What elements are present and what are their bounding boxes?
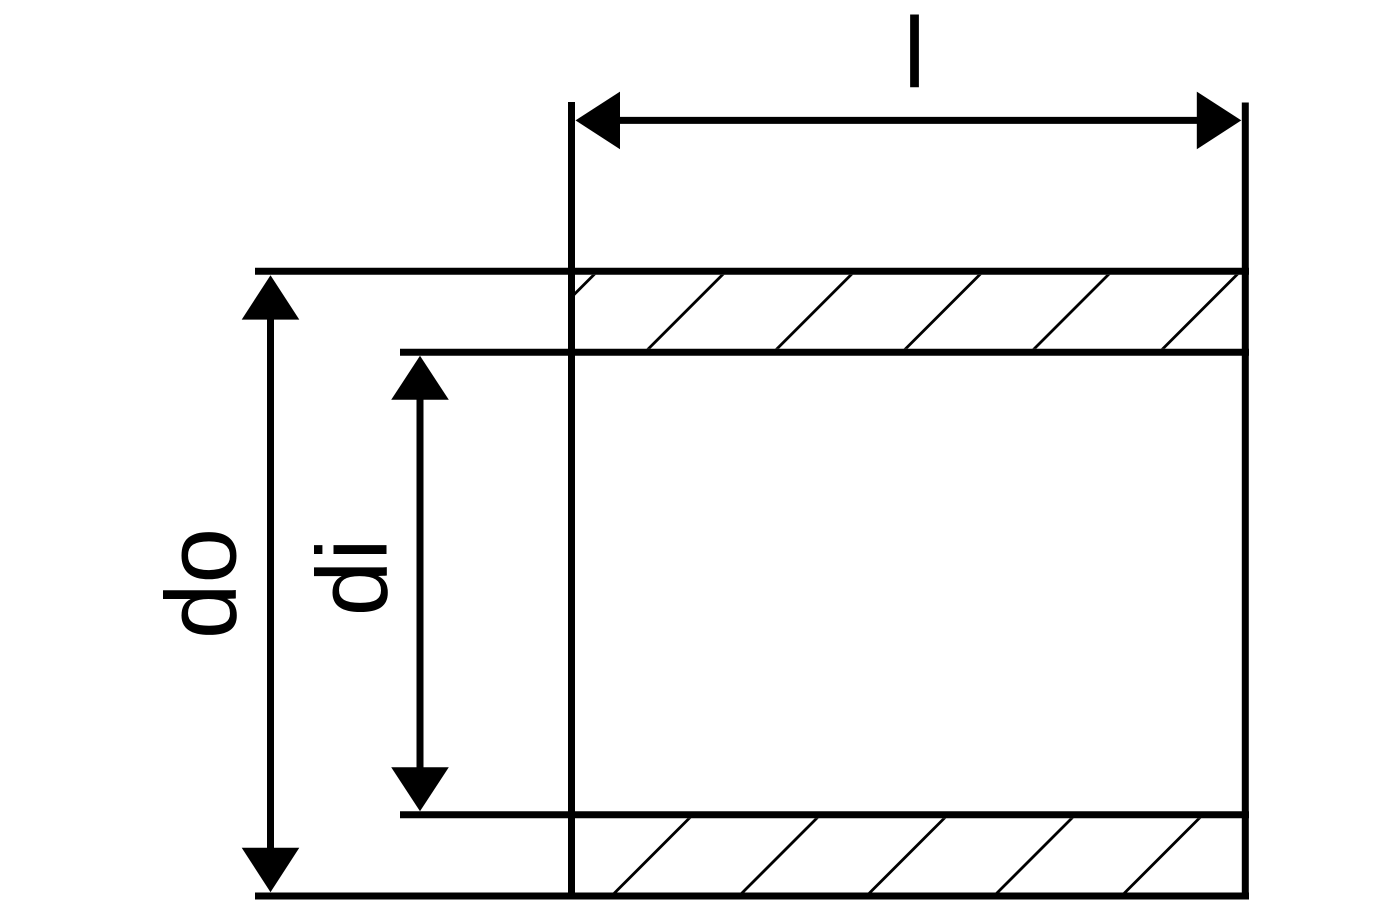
l right arrowhead	[1197, 92, 1242, 150]
svg-text:do: do	[146, 528, 258, 639]
bottom wall hatching	[595, 799, 1219, 900]
left side line (also l left extension)	[568, 102, 575, 900]
svg-text:di: di	[297, 538, 409, 616]
do dimension line	[267, 315, 274, 852]
bore bottom line (also di bottom extension)	[400, 811, 1249, 818]
di top arrowhead	[391, 356, 449, 400]
l dimension line	[615, 117, 1202, 124]
right side line (also l right extension)	[1242, 103, 1249, 900]
do bottom arrowhead	[242, 848, 300, 892]
outer top edge line (also do top extension)	[255, 268, 1249, 275]
top wall hatching	[500, 255, 1257, 369]
do top arrowhead	[242, 275, 300, 319]
di dimension line	[417, 396, 424, 771]
outer bottom edge line (also do bottom extension)	[255, 893, 1249, 900]
l left arrowhead	[576, 92, 621, 150]
svg-text:l: l	[903, 0, 925, 109]
bore top line (also di top extension)	[400, 349, 1249, 356]
di bottom arrowhead	[391, 767, 449, 811]
